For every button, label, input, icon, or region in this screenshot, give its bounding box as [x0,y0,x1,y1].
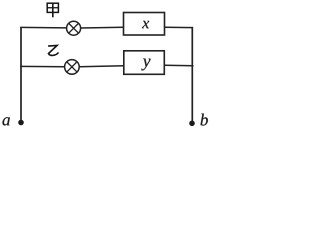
node a terminal dot [18,120,24,126]
lamp 甲 [67,21,81,35]
wire left vertical (node a to branches) [20,27,22,122]
wire top branch left segment [20,26,66,29]
wire second branch middle segment (lamp to box y) [79,66,124,67]
wire second branch right segment (box y to right vertical) [164,64,193,66]
label y [141,59,150,71]
wire top branch right segment (box x to right vertical) [165,26,193,28]
node b terminal dot [189,121,195,127]
wire second branch left segment [20,65,64,67]
label a [3,117,10,125]
label 乙 (drawn glyph) [48,46,58,56]
lamp 乙 [65,60,80,75]
label 甲 (drawn glyph) [47,3,58,17]
label b [201,114,208,126]
resistor box y [124,51,165,75]
wire right vertical (branches to node b) [191,27,193,123]
label x [142,21,149,28]
wire top branch middle segment (lamp to box x) [81,26,124,29]
resistor box x [124,13,165,36]
